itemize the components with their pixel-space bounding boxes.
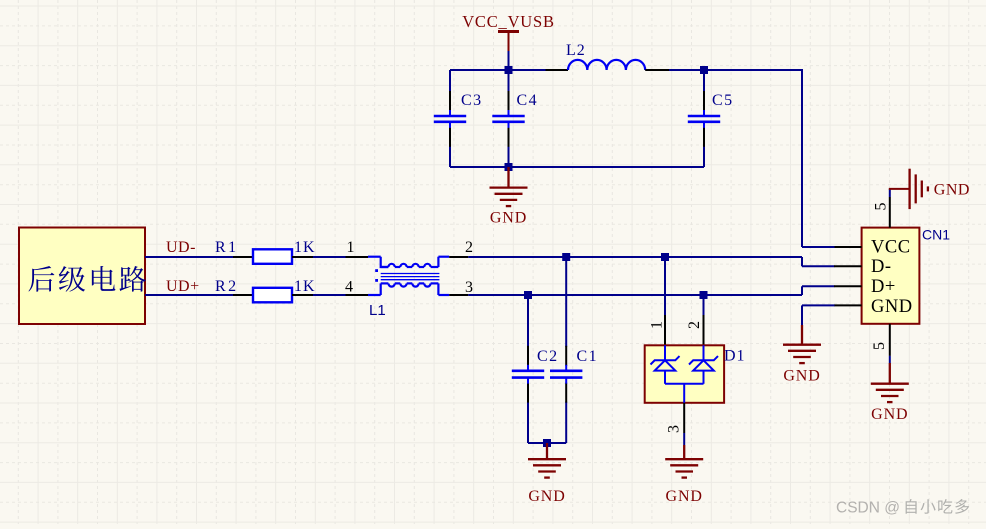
svg-text:C2: C2 (537, 348, 559, 365)
svg-text:3: 3 (465, 279, 473, 296)
svg-text:D1: D1 (724, 348, 746, 365)
svg-text:GND: GND (871, 406, 908, 423)
svg-text:C5: C5 (712, 92, 734, 109)
svg-text:R2: R2 (215, 278, 239, 295)
svg-text:UD+: UD+ (166, 278, 200, 295)
svg-text:C1: C1 (577, 348, 599, 365)
svg-text:CSDN @: CSDN @ (836, 500, 900, 517)
svg-text:4: 4 (345, 279, 353, 296)
svg-text:5: 5 (873, 203, 890, 211)
svg-text:1: 1 (347, 239, 355, 256)
svg-text:5: 5 (871, 342, 888, 350)
svg-text:VCC: VCC (871, 238, 911, 258)
svg-text:1: 1 (649, 321, 666, 329)
svg-text:D+: D+ (871, 277, 896, 297)
svg-text:3: 3 (666, 425, 683, 433)
svg-text:GND: GND (528, 488, 565, 505)
svg-text:R1: R1 (215, 239, 239, 256)
svg-text:GND: GND (490, 210, 527, 227)
svg-text:GND: GND (666, 488, 703, 505)
svg-text:C3: C3 (461, 92, 483, 109)
svg-text:C4: C4 (517, 92, 539, 109)
svg-text:D-: D- (871, 257, 892, 277)
svg-text:1K: 1K (294, 278, 316, 295)
svg-text:UD-: UD- (166, 239, 196, 256)
svg-text:GND: GND (871, 297, 913, 317)
svg-text:GND: GND (934, 181, 970, 198)
svg-text:2: 2 (686, 321, 703, 329)
svg-text:2: 2 (465, 239, 473, 256)
svg-text:VCC_VUSB: VCC_VUSB (462, 12, 555, 31)
svg-text:L1: L1 (369, 302, 386, 319)
svg-text:CN1: CN1 (922, 227, 950, 243)
svg-text:GND: GND (783, 368, 820, 385)
svg-text:1K: 1K (294, 239, 316, 256)
svg-text:L2: L2 (566, 42, 586, 59)
